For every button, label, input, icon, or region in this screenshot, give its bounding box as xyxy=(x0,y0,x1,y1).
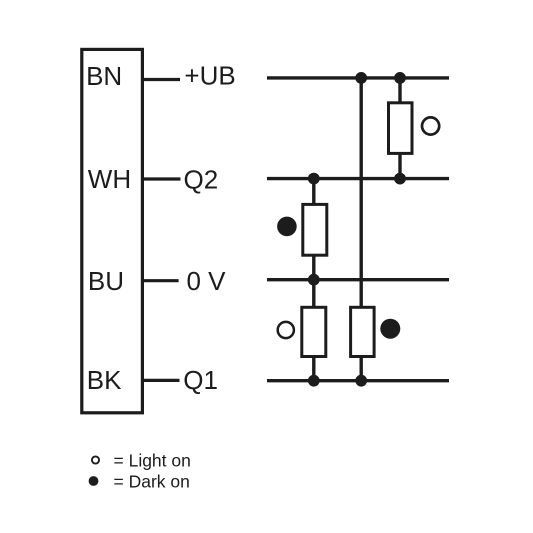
svg-text:= Dark on: = Dark on xyxy=(114,472,190,492)
svg-text:Q1: Q1 xyxy=(183,365,218,395)
svg-text:BK: BK xyxy=(87,365,122,395)
svg-text:Q2: Q2 xyxy=(184,164,219,194)
svg-text:0 V: 0 V xyxy=(187,266,227,296)
svg-text:BN: BN xyxy=(86,61,122,91)
svg-text:WH: WH xyxy=(88,164,131,194)
svg-text:+UB: +UB xyxy=(184,61,235,91)
svg-text:= Light on: = Light on xyxy=(114,451,191,471)
svg-text:BU: BU xyxy=(88,266,124,296)
